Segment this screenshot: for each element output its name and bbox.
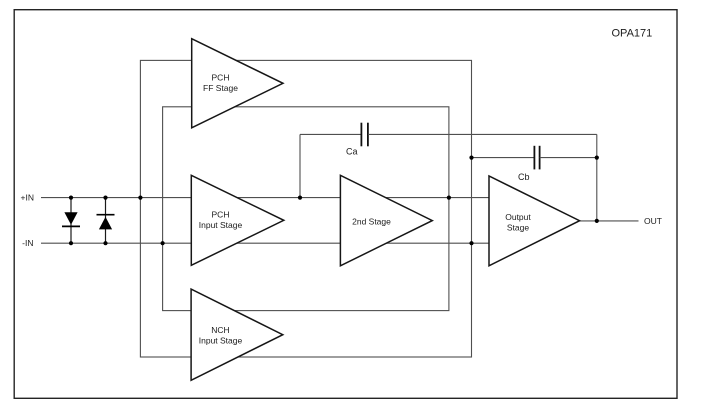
svg-text:FF Stage: FF Stage bbox=[203, 83, 238, 93]
wire Ca horizontal left segment bbox=[300, 133, 361, 135]
wire Cb horizontal right segment bbox=[540, 157, 597, 159]
wire -IN horizontal line bbox=[41, 242, 489, 244]
junction dot +IN / diode D1 bbox=[69, 196, 73, 200]
junction dot -IN / diode D2 bbox=[103, 241, 107, 245]
svg-text:2nd Stage: 2nd Stage bbox=[352, 216, 391, 226]
svg-text:Output: Output bbox=[505, 212, 531, 222]
wire OUT line bbox=[580, 220, 639, 222]
diode D1 (+IN to -IN, cathode down) bbox=[62, 198, 80, 244]
node +IN label bbox=[21, 193, 34, 203]
svg-text:OUT: OUT bbox=[644, 216, 662, 226]
junction dot Cb right / output node bbox=[595, 156, 599, 160]
svg-text:Input Stage: Input Stage bbox=[199, 336, 243, 346]
junction dot -IN / inner loop bbox=[161, 241, 165, 245]
wire Ca horizontal right segment bbox=[368, 133, 597, 135]
amplifier PCH FF Stage bbox=[192, 39, 283, 128]
wire outer input loop (net +IN distribution rectangle) bbox=[140, 60, 471, 357]
wire Ca tap vertical from +IN node up to Ca bbox=[299, 134, 301, 197]
junction dot +IN / Ca tap bbox=[298, 196, 302, 200]
svg-text:OPA171: OPA171 bbox=[612, 28, 653, 40]
svg-text:+IN: +IN bbox=[21, 193, 34, 203]
svg-text:Stage: Stage bbox=[507, 223, 529, 233]
junction dot +IN / diode D2 bbox=[103, 196, 107, 200]
junction dot Cb left / outer loop bbox=[469, 156, 473, 160]
svg-text:PCH: PCH bbox=[212, 73, 230, 83]
wire Cb horizontal left segment bbox=[472, 157, 535, 159]
amplifier 2nd Stage bbox=[340, 175, 432, 265]
wire output node vertical (Ca/Cb to OUT) bbox=[596, 134, 598, 221]
wire inner input loop (net -IN distribution rectangle) bbox=[163, 107, 449, 311]
svg-text:Input Stage: Input Stage bbox=[199, 220, 243, 230]
capacitor Cb bbox=[518, 146, 540, 182]
junction dot upper line / inner loop right edge bbox=[447, 196, 451, 200]
svg-text:Ca: Ca bbox=[346, 147, 358, 157]
junction dot OUT / output node bbox=[595, 219, 599, 223]
amplifier PCH Input Stage bbox=[191, 175, 283, 265]
amplifier Output Stage bbox=[489, 176, 580, 266]
node OUT label bbox=[644, 216, 662, 226]
node -IN label bbox=[22, 238, 33, 248]
junction dot +IN / outer loop bbox=[138, 196, 142, 200]
junction dot -IN / diode D1 bbox=[69, 241, 73, 245]
svg-text:-IN: -IN bbox=[22, 238, 33, 248]
wire +IN horizontal line bbox=[41, 197, 489, 199]
capacitor Ca bbox=[346, 123, 368, 157]
svg-text:PCH: PCH bbox=[212, 210, 230, 220]
svg-text:Cb: Cb bbox=[518, 172, 530, 182]
svg-text:NCH: NCH bbox=[211, 325, 229, 335]
diode D2 (-IN to +IN, cathode up) bbox=[97, 198, 115, 244]
junction dot lower line / outer loop right edge bbox=[469, 241, 473, 245]
amplifier NCH Input Stage bbox=[191, 289, 283, 380]
